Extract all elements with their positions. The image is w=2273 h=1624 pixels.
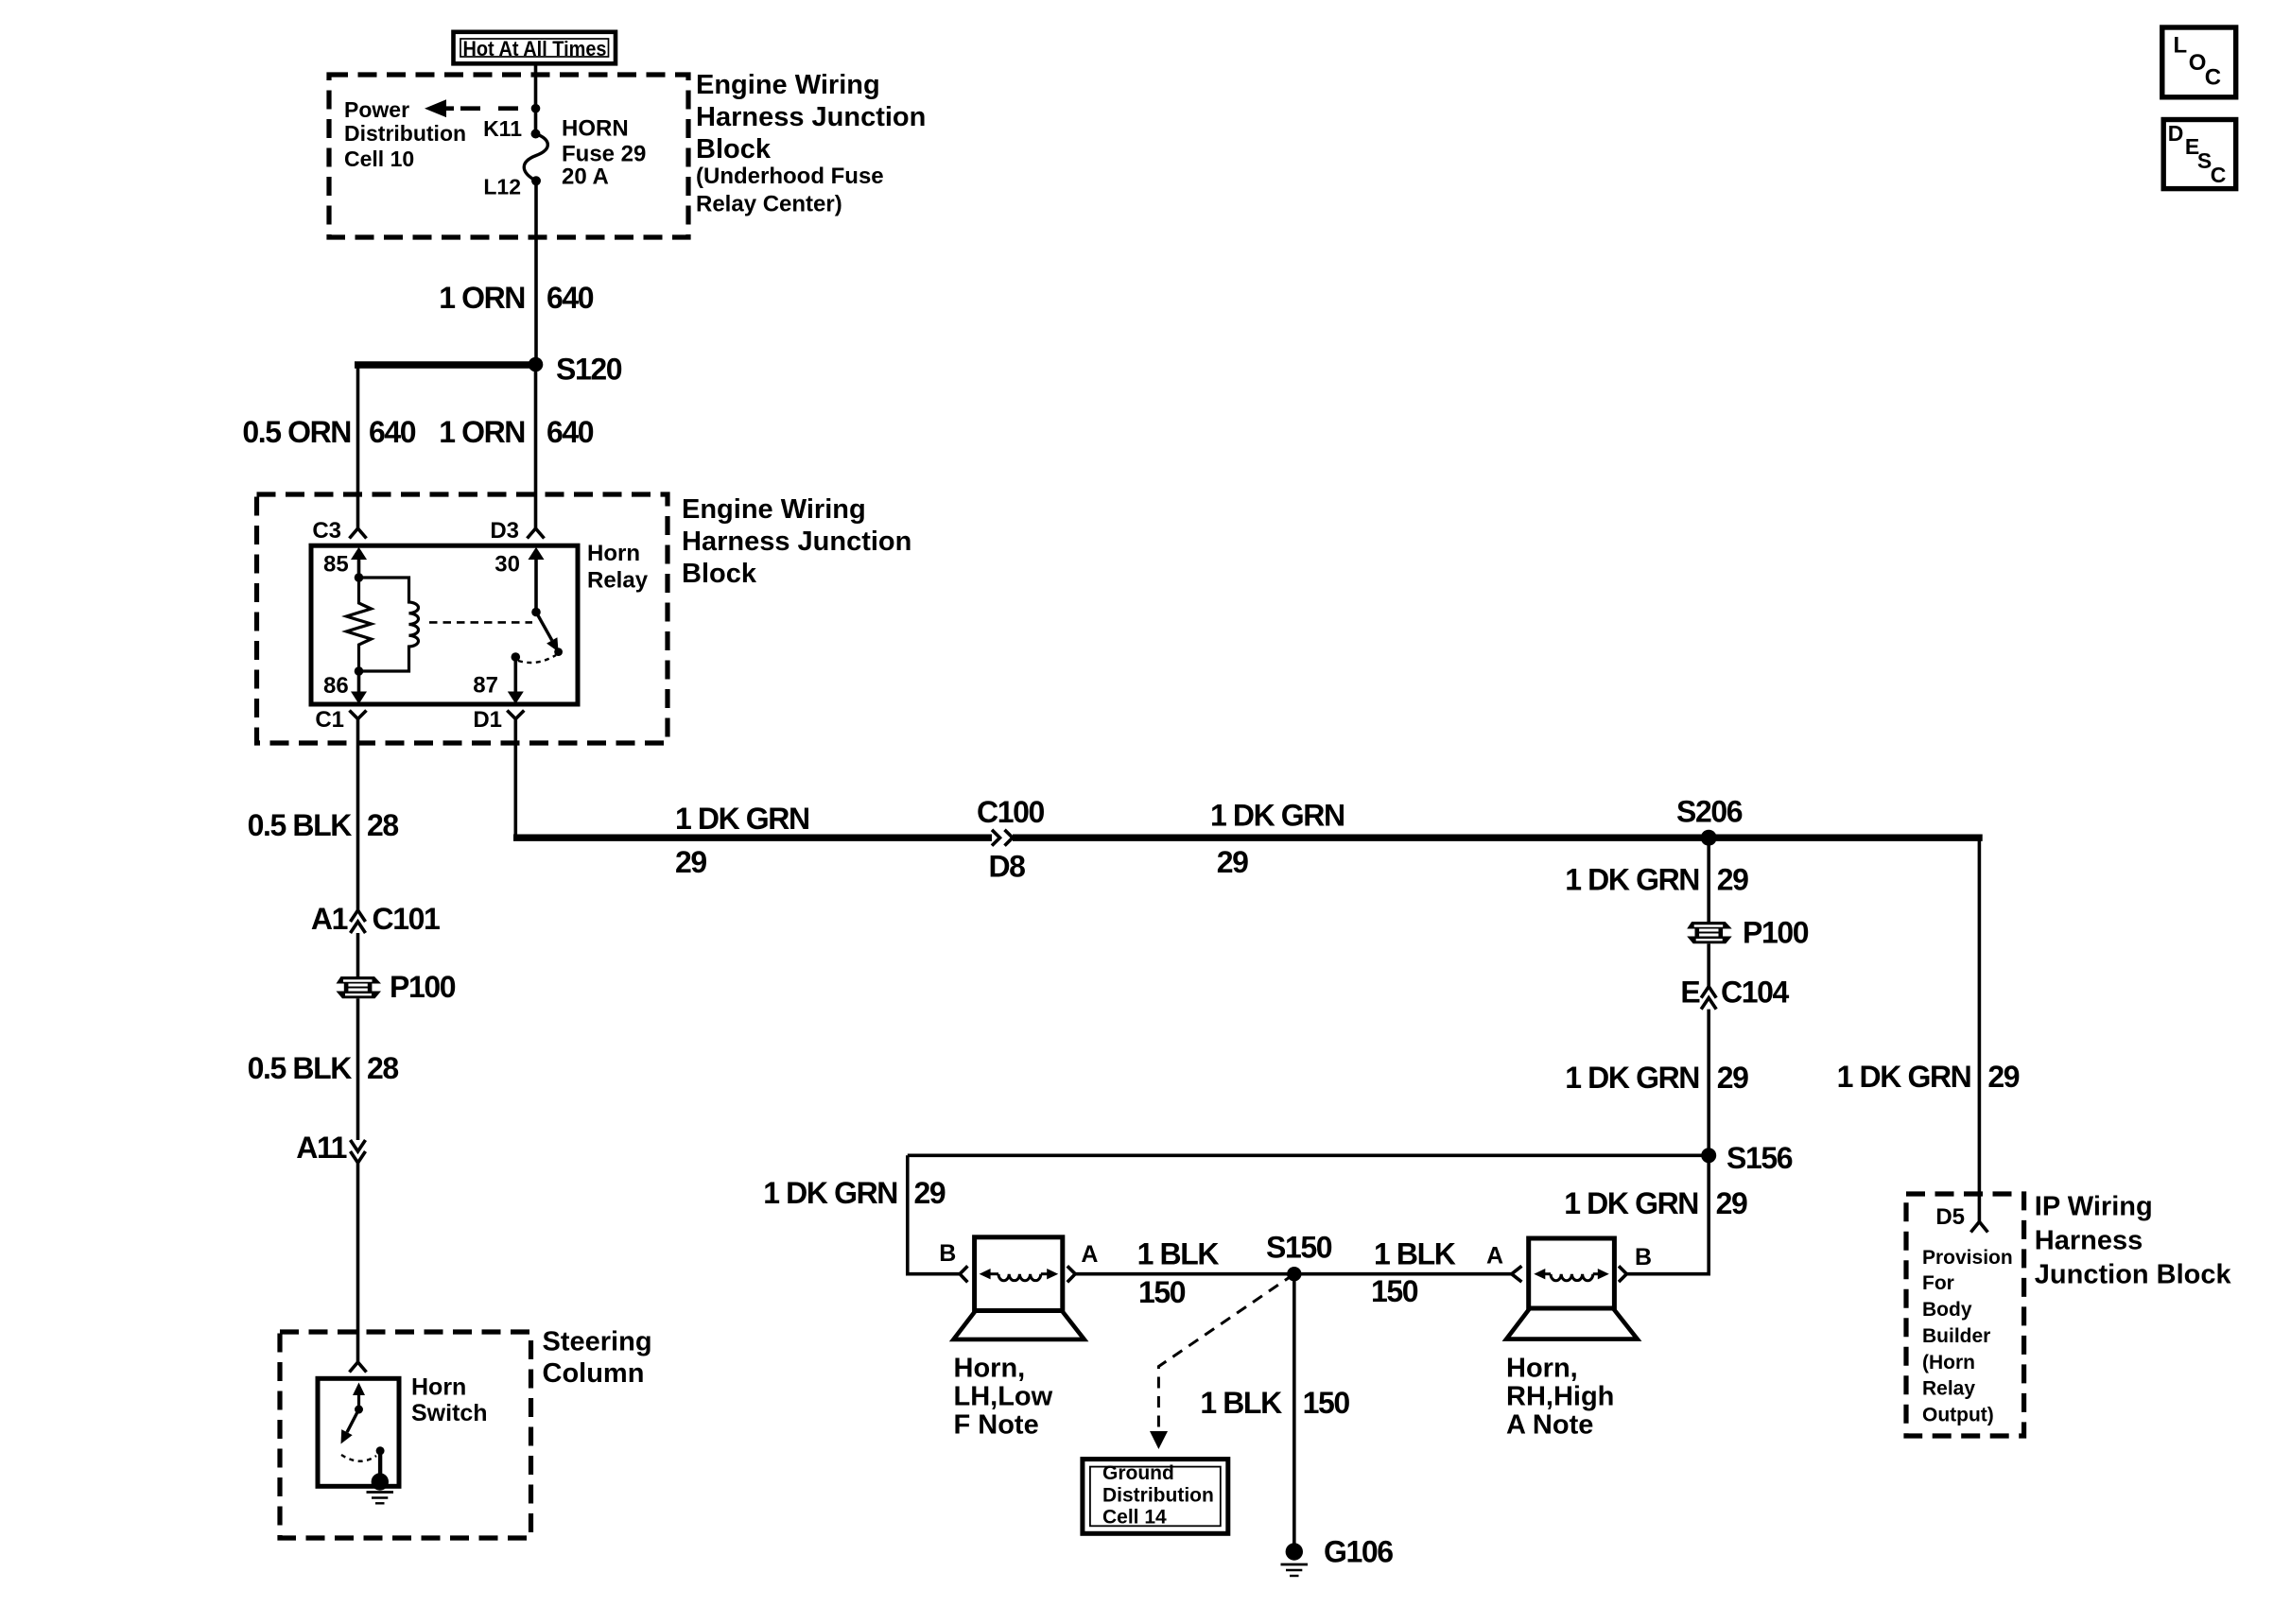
svg-text:1 ORN: 1 ORN xyxy=(439,415,525,449)
svg-text:Distribution: Distribution xyxy=(1102,1485,1214,1507)
svg-text:F Note: F Note xyxy=(954,1409,1039,1440)
svg-text:Horn,: Horn, xyxy=(954,1353,1026,1383)
dashed box: Engine Wiring Harness Junction Block (fuse block) xyxy=(329,75,688,237)
DESC reference box xyxy=(2163,120,2236,189)
fuse HORN Fuse 29 20 A xyxy=(524,130,547,186)
svg-text:30: 30 xyxy=(495,552,520,578)
svg-text:C3: C3 xyxy=(312,518,341,544)
label: Engine Wiring Harness Junction Block (Underhood Fuse Relay Center) xyxy=(696,70,926,217)
dashed box: Steering Column xyxy=(280,1332,531,1538)
svg-text:P100: P100 xyxy=(390,970,456,1004)
svg-text:150: 150 xyxy=(1371,1274,1418,1308)
connector A1 C101 xyxy=(311,902,440,936)
svg-text:S150: S150 xyxy=(1266,1231,1332,1265)
dashed box: Engine Wiring Harness Junction Block (relay) xyxy=(257,494,668,743)
connector A at RH horn xyxy=(1486,1243,1521,1282)
wire label 1 DK GRN 29 (S206 drop) xyxy=(1565,863,1748,897)
node S120 xyxy=(529,353,622,387)
wire: main horizontal 1 DK GRN run xyxy=(513,835,992,841)
svg-text:(Underhood Fuse: (Underhood Fuse xyxy=(696,164,884,189)
svg-text:S206: S206 xyxy=(1676,794,1743,828)
wire: C104 down to S156 xyxy=(1707,1010,1710,1156)
svg-text:Distribution: Distribution xyxy=(344,121,466,146)
svg-text:D: D xyxy=(2168,121,2184,146)
wire label 1 ORN 640 (second) xyxy=(439,415,594,449)
svg-text:P100: P100 xyxy=(1743,916,1809,950)
pin 86 arrow xyxy=(323,671,367,704)
dashed throw arc xyxy=(518,655,556,663)
connector C3 xyxy=(312,518,366,544)
svg-text:Harness: Harness xyxy=(2035,1225,2143,1255)
svg-text:Horn: Horn xyxy=(587,541,640,566)
svg-text:Block: Block xyxy=(682,559,757,589)
connector D1 xyxy=(473,707,524,733)
svg-text:A1: A1 xyxy=(311,902,348,936)
connector at horn switch xyxy=(350,1362,367,1373)
svg-text:Cell 10: Cell 10 xyxy=(344,147,414,171)
svg-text:29: 29 xyxy=(1717,863,1748,897)
svg-text:Provision: Provision xyxy=(1922,1247,2013,1269)
node: junction dot on hot feed at dashed arrow xyxy=(531,104,541,113)
svg-text:A Note: A Note xyxy=(1506,1409,1593,1440)
svg-text:Relay: Relay xyxy=(1922,1377,1975,1399)
relay coil resistor xyxy=(347,573,372,676)
wire label 1 ORN 640 xyxy=(439,281,594,315)
svg-text:Engine Wiring: Engine Wiring xyxy=(682,494,866,525)
svg-text:C: C xyxy=(2205,64,2221,90)
wire: C1 down to C101 xyxy=(356,719,360,911)
svg-text:RH,High: RH,High xyxy=(1506,1381,1614,1411)
wire: S206 drop to P100 xyxy=(1707,838,1710,922)
svg-text:Engine Wiring: Engine Wiring xyxy=(696,70,880,100)
svg-text:C: C xyxy=(2211,163,2227,187)
dashed throw arc (switch) xyxy=(341,1455,376,1461)
connector A at LH horn xyxy=(1067,1241,1099,1282)
dashed box: IP Wiring Harness Junction Block xyxy=(1906,1194,2024,1436)
svg-text:C1: C1 xyxy=(315,707,344,733)
wire label 1 DK GRN 29 (after C100) xyxy=(1210,799,1345,880)
svg-text:1 DK GRN: 1 DK GRN xyxy=(763,1176,897,1210)
svg-text:Body: Body xyxy=(1922,1299,1972,1321)
horn switch contact xyxy=(376,1446,385,1455)
relay switch contact 87 xyxy=(512,652,521,662)
svg-text:C104: C104 xyxy=(1721,976,1790,1010)
svg-text:86: 86 xyxy=(323,673,349,699)
wire: LH horn A to S150 to RH horn A xyxy=(1075,1272,1512,1276)
connector B at LH horn xyxy=(939,1240,967,1282)
note box: Ground Distribution Cell 14 xyxy=(1083,1460,1228,1534)
svg-text:1 DK GRN: 1 DK GRN xyxy=(1565,1061,1699,1095)
svg-text:29: 29 xyxy=(1217,845,1248,879)
svg-text:S120: S120 xyxy=(556,353,622,387)
svg-text:Relay: Relay xyxy=(587,568,649,594)
note: Provision For Body Builder (Horn Relay Output) xyxy=(1922,1247,2013,1425)
svg-text:150: 150 xyxy=(1303,1386,1350,1420)
pin 87 arrow xyxy=(473,657,524,704)
svg-text:E: E xyxy=(1680,976,1700,1010)
label: Horn Switch xyxy=(411,1373,488,1426)
svg-text:Harness Junction: Harness Junction xyxy=(682,527,911,557)
horn switch box xyxy=(318,1378,399,1486)
connector D3 xyxy=(490,518,544,544)
label: Steering Column xyxy=(543,1327,652,1390)
svg-text:0.5 BLK: 0.5 BLK xyxy=(248,1051,353,1085)
svg-text:Cell 14: Cell 14 xyxy=(1102,1507,1167,1529)
svg-text:HORN: HORN xyxy=(562,116,629,142)
svg-text:IP Wiring: IP Wiring xyxy=(2035,1191,2153,1221)
svg-text:(Horn: (Horn xyxy=(1922,1352,1975,1373)
horn RH, High A Note xyxy=(1506,1238,1638,1339)
wire: main down from S120 to D3 xyxy=(534,365,538,529)
svg-text:1 DK GRN: 1 DK GRN xyxy=(675,802,809,836)
svg-text:Relay Center): Relay Center) xyxy=(696,192,842,217)
wire: P100 to A11 xyxy=(356,998,360,1140)
svg-text:150: 150 xyxy=(1138,1275,1186,1309)
svg-text:29: 29 xyxy=(675,845,706,879)
svg-text:L12: L12 xyxy=(483,175,521,199)
svg-text:640: 640 xyxy=(547,415,594,449)
svg-text:0.5 ORN: 0.5 ORN xyxy=(242,415,351,449)
svg-text:Switch: Switch xyxy=(411,1400,488,1426)
wire: left branch down to C3 xyxy=(356,365,360,529)
wire label 1 DK GRN 29 (to D5) xyxy=(1837,1060,2020,1094)
svg-text:G106: G106 xyxy=(1324,1535,1393,1569)
svg-text:Fuse 29: Fuse 29 xyxy=(562,142,646,167)
svg-text:28: 28 xyxy=(367,808,398,842)
svg-text:29: 29 xyxy=(1717,1061,1748,1095)
svg-text:640: 640 xyxy=(547,281,594,315)
svg-text:1 ORN: 1 ORN xyxy=(439,281,525,315)
svg-text:A: A xyxy=(1081,1241,1098,1268)
svg-text:Ground: Ground xyxy=(1102,1462,1174,1484)
wire label 1 BLK 150 (ground leg) xyxy=(1200,1386,1349,1420)
relay switch blade xyxy=(531,608,563,656)
svg-text:Hot At All Times: Hot At All Times xyxy=(463,37,607,60)
svg-text:1 BLK: 1 BLK xyxy=(1200,1386,1282,1420)
wire: P100 to C104 xyxy=(1707,943,1710,986)
label: IP Wiring Harness Junction Block xyxy=(2035,1191,2232,1289)
svg-text:Builder: Builder xyxy=(1922,1325,1990,1347)
svg-text:Column: Column xyxy=(543,1358,645,1389)
svg-text:For: For xyxy=(1922,1272,1954,1294)
label: Horn, RH,High A Note xyxy=(1506,1353,1614,1440)
connector A11 xyxy=(296,1131,365,1165)
connector E C104 xyxy=(1680,976,1789,1010)
svg-text:Steering: Steering xyxy=(543,1327,652,1357)
label: Horn, LH,Low F Note xyxy=(954,1353,1053,1440)
svg-text:D8: D8 xyxy=(988,849,1025,883)
relay box: Horn Relay xyxy=(311,545,578,704)
connector C1 xyxy=(315,707,366,733)
svg-text:D3: D3 xyxy=(490,518,519,544)
svg-text:1 DK GRN: 1 DK GRN xyxy=(1564,1186,1698,1220)
dashed reference arrow to Power Distribution xyxy=(425,99,536,117)
wire label 0.5 BLK 28 xyxy=(248,808,399,842)
svg-text:B: B xyxy=(939,1240,956,1267)
wire: left corner down to LH horn B xyxy=(908,1155,960,1273)
svg-text:29: 29 xyxy=(1987,1060,2019,1094)
wire: A11 down to steering column xyxy=(356,1163,360,1362)
svg-text:Horn: Horn xyxy=(411,1373,466,1400)
relay coil winding xyxy=(359,578,419,671)
ground G106 xyxy=(1281,1535,1394,1577)
wire: S206 to IP harness corner down to D5 xyxy=(1978,838,1982,1221)
svg-text:Harness Junction: Harness Junction xyxy=(696,102,926,132)
svg-text:Block: Block xyxy=(696,134,772,164)
ground stub and ground at horn switch xyxy=(367,1451,394,1504)
svg-text:C100: C100 xyxy=(977,795,1045,829)
svg-text:K11: K11 xyxy=(483,116,522,141)
svg-text:1 BLK: 1 BLK xyxy=(1137,1237,1220,1271)
wire label 1 DK GRN 29 (at relay output) xyxy=(675,802,809,879)
svg-text:29: 29 xyxy=(1716,1186,1747,1220)
wire label 1 DK GRN 29 (above S156) xyxy=(1565,1061,1748,1095)
wire: 1 ORN 640 from fuse L12 to S120 xyxy=(534,181,538,364)
svg-text:A11: A11 xyxy=(296,1131,346,1165)
wire label 0.5 BLK 28 (second) xyxy=(248,1051,399,1085)
note: Power Distribution Cell 10 xyxy=(344,97,466,171)
wire label 0.5 ORN 640 xyxy=(242,415,415,449)
wire: S156 horizontal to left xyxy=(908,1154,1709,1158)
svg-text:1 DK GRN: 1 DK GRN xyxy=(1210,799,1345,833)
dashed reference to Ground Distribution xyxy=(1150,1274,1294,1449)
svg-text:D1: D1 xyxy=(473,707,502,733)
svg-text:C101: C101 xyxy=(373,902,441,936)
wire label 1 DK GRN 29 (to RH horn) xyxy=(1564,1186,1747,1220)
wire label 1 BLK 150 (left of S150) xyxy=(1137,1237,1220,1309)
svg-text:85: 85 xyxy=(323,552,349,578)
pin 85 arrow xyxy=(323,547,367,578)
svg-text:Output): Output) xyxy=(1922,1404,1994,1425)
grommet P100 (IP harness) xyxy=(1687,916,1809,950)
power source box "Hot At All Times" xyxy=(454,32,616,64)
connector D5 xyxy=(1935,1204,1987,1232)
wire: branch from S120 to left xyxy=(355,361,536,368)
pin 30 arrow xyxy=(495,547,544,613)
svg-text:0.5 BLK: 0.5 BLK xyxy=(248,808,353,842)
svg-text:Junction Block: Junction Block xyxy=(2035,1259,2232,1289)
svg-text:28: 28 xyxy=(367,1051,398,1085)
node S156 xyxy=(1701,1141,1793,1175)
dashed actuation link xyxy=(429,621,532,624)
svg-text:LH,Low: LH,Low xyxy=(954,1381,1053,1411)
wire: C100 to S206 and to IP corner xyxy=(1013,835,1983,841)
connector B at RH horn xyxy=(1619,1244,1652,1282)
svg-text:B: B xyxy=(1635,1244,1652,1270)
wire label 1 BLK 150 (right of S150) xyxy=(1371,1237,1456,1308)
wire: S156 down and left to RH horn B xyxy=(1626,1155,1709,1273)
label: Horn Relay xyxy=(587,541,649,594)
node S150 xyxy=(1266,1231,1332,1282)
label: Engine Wiring Harness Junction Block xyxy=(682,494,911,589)
svg-text:20 A: 20 A xyxy=(562,164,609,190)
wire: S150 down to G106 xyxy=(1293,1274,1296,1551)
connector C100 D8 xyxy=(977,795,1045,883)
wire: hot feed from Hot At All Times to fuse K11 xyxy=(534,63,538,134)
svg-text:1 BLK: 1 BLK xyxy=(1374,1237,1456,1271)
svg-text:L: L xyxy=(2173,32,2187,58)
svg-text:A: A xyxy=(1486,1243,1503,1270)
wire: C101 to P100 xyxy=(356,933,360,976)
svg-text:O: O xyxy=(2189,50,2207,76)
svg-text:1 DK GRN: 1 DK GRN xyxy=(1837,1060,1971,1094)
node S206 xyxy=(1676,794,1743,845)
LOC reference box xyxy=(2162,27,2236,97)
svg-text:Horn,: Horn, xyxy=(1506,1353,1578,1383)
svg-text:1 DK GRN: 1 DK GRN xyxy=(1565,863,1699,897)
svg-text:Power: Power xyxy=(344,97,409,122)
horn LH, Low F Note xyxy=(954,1237,1084,1339)
svg-text:S156: S156 xyxy=(1726,1141,1793,1175)
grommet P100 (steering column) xyxy=(337,970,456,1004)
svg-text:D5: D5 xyxy=(1935,1204,1965,1230)
wire: D1 down and right to C100 xyxy=(513,719,517,838)
svg-text:640: 640 xyxy=(369,415,416,449)
fuse value label xyxy=(562,116,646,190)
svg-text:87: 87 xyxy=(473,673,498,699)
svg-text:29: 29 xyxy=(914,1176,946,1210)
wire label 1 DK GRN 29 (to LH horn) xyxy=(763,1176,946,1210)
horn switch arm xyxy=(341,1383,366,1444)
